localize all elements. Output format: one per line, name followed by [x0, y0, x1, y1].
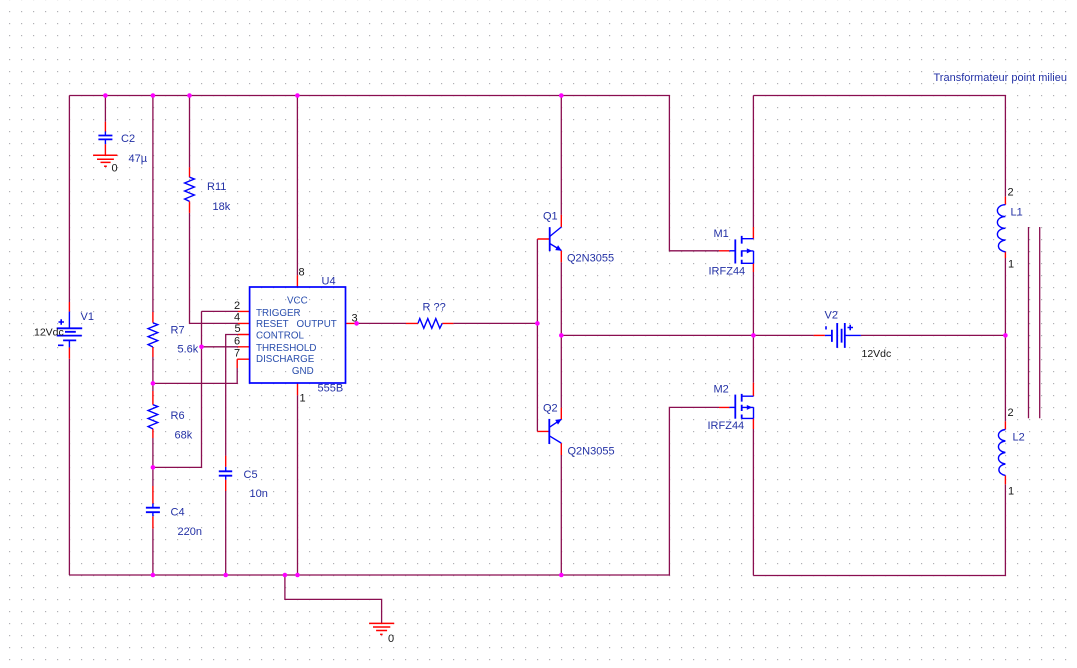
- svg-text:M2: M2: [714, 384, 729, 396]
- svg-text:4: 4: [234, 311, 240, 323]
- svg-text:1: 1: [1008, 259, 1014, 271]
- svg-text:8: 8: [299, 267, 305, 279]
- svg-text:C2: C2: [121, 133, 135, 145]
- svg-text:L2: L2: [1013, 432, 1025, 444]
- svg-text:7: 7: [234, 348, 240, 360]
- svg-text:1: 1: [1008, 486, 1014, 498]
- svg-text:V2: V2: [825, 310, 838, 322]
- svg-text:R11: R11: [207, 181, 226, 193]
- svg-text:47µ: 47µ: [129, 153, 148, 165]
- svg-text:R ??: R ??: [423, 302, 446, 314]
- svg-text:2: 2: [1008, 187, 1014, 199]
- svg-text:12Vdc: 12Vdc: [34, 327, 64, 339]
- svg-text:0: 0: [388, 633, 394, 645]
- svg-text:RESET: RESET: [256, 319, 289, 330]
- svg-text:6: 6: [234, 335, 240, 347]
- svg-text:555B: 555B: [318, 383, 344, 395]
- svg-text:0: 0: [112, 163, 118, 175]
- svg-text:CONTROL: CONTROL: [256, 331, 304, 342]
- svg-text:Q1: Q1: [543, 211, 558, 223]
- svg-text:5: 5: [235, 323, 241, 335]
- svg-text:2: 2: [234, 300, 240, 312]
- svg-text:U4: U4: [322, 276, 336, 288]
- svg-text:3: 3: [352, 312, 358, 324]
- svg-text:2: 2: [1008, 407, 1014, 419]
- svg-text:Q2N3055: Q2N3055: [567, 253, 614, 265]
- svg-text:C5: C5: [244, 469, 258, 481]
- svg-text:R7: R7: [171, 325, 185, 337]
- svg-text:THRESHOLD: THRESHOLD: [256, 343, 316, 354]
- svg-text:1: 1: [300, 393, 306, 405]
- svg-text:L1: L1: [1011, 207, 1023, 219]
- svg-text:VCC: VCC: [287, 295, 308, 306]
- svg-text:DISCHARGE: DISCHARGE: [256, 354, 315, 365]
- svg-text:R6: R6: [171, 410, 185, 422]
- svg-text:V1: V1: [81, 311, 94, 323]
- svg-text:Q2: Q2: [543, 403, 558, 415]
- svg-text:5.6k: 5.6k: [178, 344, 199, 356]
- svg-text:GND: GND: [292, 366, 314, 377]
- svg-text:Q2N3055: Q2N3055: [568, 446, 615, 458]
- svg-text:68k: 68k: [175, 430, 193, 442]
- svg-text:IRFZ44: IRFZ44: [709, 266, 746, 278]
- svg-text:12Vdc: 12Vdc: [862, 348, 892, 360]
- svg-text:18k: 18k: [213, 201, 231, 213]
- svg-text:10n: 10n: [250, 488, 268, 500]
- svg-text:M1: M1: [714, 228, 729, 240]
- svg-text:TRIGGER: TRIGGER: [256, 308, 301, 319]
- svg-text:220n: 220n: [178, 526, 202, 538]
- svg-text:OUTPUT: OUTPUT: [297, 319, 337, 330]
- svg-text:Transformateur point milieu: Transformateur point milieu: [934, 72, 1067, 84]
- svg-text:IRFZ44: IRFZ44: [708, 420, 745, 432]
- svg-text:C4: C4: [171, 507, 185, 519]
